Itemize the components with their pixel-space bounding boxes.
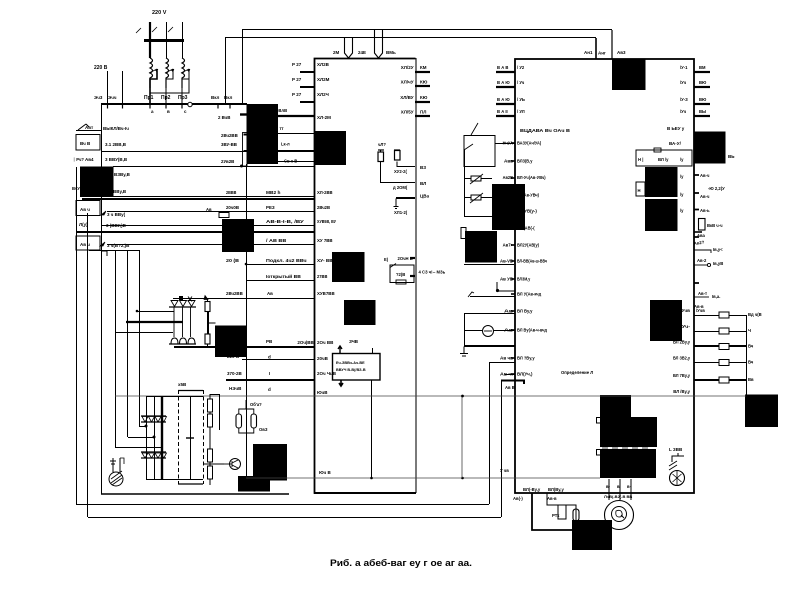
U1 right pin row 1 bbox=[415, 71, 430, 73]
svg-text:НЭчВ: НЭчВ bbox=[229, 386, 242, 391]
svg-text:КМ: КМ bbox=[420, 65, 427, 70]
svg-text:Об'а?: Об'а? bbox=[250, 402, 262, 407]
svg-text:ХЛ/ВУ: ХЛ/ВУ bbox=[400, 95, 413, 100]
svg-text:ХЛ2В: ХЛ2В bbox=[317, 62, 330, 67]
svg-text:2Вч2В: 2Вч2В bbox=[317, 205, 331, 210]
svg-text:/ АВ ВВ: / АВ ВВ bbox=[266, 238, 287, 243]
U1 pin 220V thick wire from A1 block bbox=[278, 115, 314, 117]
svg-text:-ВлВ: -ВлВ bbox=[277, 108, 287, 113]
svg-text:ВЮ: ВЮ bbox=[699, 97, 707, 102]
indicator lamp HL1 bbox=[483, 326, 494, 337]
svg-text:чЛ?: чЛ? bbox=[378, 142, 386, 147]
U1 pin wire row 150 bbox=[278, 150, 314, 152]
U1 right pin row 3 bbox=[415, 101, 430, 103]
U2 left pin row 4 bbox=[496, 115, 515, 117]
label block B16 bottom bbox=[253, 444, 287, 481]
U2 right pin row 1 bbox=[694, 71, 710, 73]
svg-text:2ОчН В: 2ОчН В bbox=[398, 256, 413, 261]
svg-text:Ав ч: Ав ч bbox=[80, 242, 90, 247]
wire left input a bbox=[107, 71, 109, 104]
svg-text:РВ: РВ bbox=[266, 339, 273, 344]
variable resistor R row 2 bbox=[471, 195, 481, 200]
capacitor capsule near B17 bbox=[573, 509, 579, 521]
wire left input b bbox=[122, 71, 124, 104]
power module MC main bbox=[600, 417, 657, 447]
label block B13 audio right bbox=[745, 395, 778, 428]
wire mains phase c bbox=[182, 22, 184, 58]
wire drop from pin 358 bbox=[489, 362, 491, 504]
U2 left pin row 1 bbox=[496, 71, 515, 73]
resistor below T2 bbox=[205, 334, 210, 344]
wire bottom corner path thick bbox=[532, 493, 576, 530]
svg-text:ЛчВ(-В2(-В ВВ: ЛчВ(-В2(-В ВВ bbox=[604, 494, 632, 499]
white box H row 182 bbox=[636, 182, 645, 196]
svg-text:Анг: Анг bbox=[598, 51, 606, 56]
transformer T1 winding a bbox=[150, 58, 153, 88]
svg-text:Вч В: Вч В bbox=[80, 141, 91, 146]
svg-text:2Оч ЧцВ: 2Оч ЧцВ bbox=[317, 371, 337, 376]
sync box top right tick bbox=[372, 348, 374, 354]
bus junction ticks bbox=[108, 105, 183, 109]
svg-text:Ав-ч: Ав-ч bbox=[700, 194, 710, 199]
svg-text:ВЛ-Уч(Ав-УВч): ВЛ-Уч(Ав-УВч) bbox=[517, 175, 546, 180]
wire top A horizontal bbox=[242, 29, 612, 31]
svg-text:В А Ю: В А Ю bbox=[497, 80, 510, 85]
U1 top pin funnel 1 bbox=[345, 38, 353, 59]
svg-text:ВЛ(Ву,у: ВЛ(Ву,у bbox=[548, 487, 564, 492]
U1 left wire row y264 bbox=[246, 264, 314, 266]
wire long thin row 395 bbox=[115, 395, 746, 397]
svg-text:Вв: Вв bbox=[748, 377, 754, 382]
svg-text:3 ч ВВу(: 3 ч ВВу( bbox=[107, 212, 126, 217]
svg-text:ХЛ1-2(: ХЛ1-2( bbox=[394, 210, 408, 215]
svg-text:ВЛ /у: ВЛ /у bbox=[658, 157, 669, 162]
svg-text:3ВУ-ВВ: 3ВУ-ВВ bbox=[221, 142, 237, 147]
svg-text:ВЛ Ву,у: ВЛ Ву,у bbox=[517, 309, 533, 314]
half box row 7 bbox=[102, 251, 107, 256]
U1 pin wire row 161 bbox=[278, 161, 314, 163]
svg-text:ХЛ-2ВВ: ХЛ-2ВВ bbox=[317, 190, 333, 195]
svg-text:РЕЗ: РЕЗ bbox=[266, 205, 275, 210]
svg-text:ХЛ/2У: ХЛ/2У bbox=[401, 65, 414, 70]
U2 right pin row 2 bbox=[694, 86, 710, 88]
label block B11 mid bbox=[344, 300, 376, 325]
svg-text:Ав-2: Ав-2 bbox=[697, 258, 707, 263]
wire T2 row 332 bbox=[115, 332, 173, 334]
wire lamp row 346 thick bbox=[464, 345, 515, 347]
U1 pin row 359 wire bbox=[242, 359, 314, 361]
audio row y380 bbox=[694, 379, 719, 381]
U2 left pin row 3 bbox=[496, 103, 515, 105]
coil cups bottom row bbox=[171, 338, 195, 344]
wire T2 row 322 thick bbox=[126, 321, 183, 323]
svg-text:ВЛ /Ву,у: ВЛ /Ву,у bbox=[673, 389, 690, 394]
svg-text:ВВУЧ В-В(/ВЗ-В: ВВУЧ В-В(/ВЗ-В bbox=[336, 368, 366, 372]
enclosure bottom edge bbox=[101, 493, 289, 495]
transformer T1 winding c bbox=[182, 58, 185, 88]
power module MC left notch 1 bbox=[597, 418, 601, 424]
stub Iv row 296 bbox=[694, 296, 709, 298]
svg-text:ВЫКЛ/Вч-Iч: ВЫКЛ/Вч-Iч bbox=[103, 126, 129, 131]
label block antenna top right bbox=[612, 59, 646, 91]
wire thick row 347 left segment bbox=[174, 346, 314, 348]
svg-text:2М: 2М bbox=[333, 50, 340, 55]
svg-text:3 ВВУ(В,В: 3 ВВУ(В,В bbox=[105, 157, 128, 162]
wire transistor connects bbox=[224, 463, 232, 465]
svg-text:в: в bbox=[167, 109, 170, 114]
wire switch group vertical bbox=[464, 166, 466, 216]
svg-text:4 СЗ ч!-- МЗь: 4 СЗ ч!-- МЗь bbox=[419, 270, 446, 275]
svg-text:ВкВ ч-ч: ВкВ ч-ч bbox=[707, 223, 723, 228]
power module MC left notch 2 bbox=[597, 450, 601, 456]
wire drop x462 bbox=[461, 396, 463, 478]
svg-text:ХЛ/5У: ХЛ/5У bbox=[401, 110, 414, 115]
resistor R inside U1 top 1 bbox=[378, 152, 384, 162]
sync box top arrow bbox=[338, 346, 342, 354]
wire winding a to fuse bbox=[150, 71, 157, 104]
U1 internal relay box bbox=[390, 265, 414, 283]
wire top B right drop bbox=[595, 38, 597, 59]
svg-text:ВЗ: ВЗ bbox=[420, 165, 426, 170]
svg-text:2Оч ВВ: 2Оч ВВ bbox=[317, 340, 334, 345]
module U1 outline bbox=[315, 59, 416, 494]
svg-text:Ав-ч: Ав-ч bbox=[700, 173, 710, 178]
connector strip left of A1 bbox=[243, 133, 248, 167]
label block B12 audio bbox=[650, 300, 682, 341]
svg-text:/Уч: /Уч bbox=[680, 80, 687, 85]
svg-text:Подкл. 4ч2 ВВч: Подкл. 4ч2 ВВч bbox=[266, 258, 307, 263]
svg-text:2ВВВ: 2ВВВ bbox=[226, 190, 237, 195]
svg-text:ВЛ: ВЛ bbox=[420, 181, 426, 186]
wire T2 top row bbox=[173, 298, 314, 300]
U1 pin wire row 133 bbox=[278, 133, 314, 135]
power module MC lower bbox=[600, 449, 656, 478]
svg-text:Вд ч(В: Вд ч(В bbox=[748, 312, 762, 317]
svg-text:ХЛ/чУ: ХЛ/чУ bbox=[401, 80, 414, 85]
audio right vertical bbox=[746, 315, 748, 396]
svg-text:Lк-л: Lк-л bbox=[281, 142, 290, 147]
label block A2 on U1 left bbox=[314, 131, 346, 165]
module U2 outline bbox=[515, 59, 694, 493]
resistor stack right of T3 r3 bbox=[208, 449, 213, 462]
svg-text:3 (ВВУ,)В: 3 (ВВУ,)В bbox=[106, 223, 127, 228]
svg-text:ВЫ: ВЫ bbox=[699, 109, 706, 114]
svg-text:Ав: Ав bbox=[206, 207, 212, 212]
U1 left wire row y244 bbox=[107, 244, 314, 246]
wire under switch group bbox=[464, 264, 514, 266]
wire thick row 347 right segment bbox=[464, 345, 515, 347]
wire mains phase a bbox=[149, 22, 151, 58]
svg-text:Е): Е) bbox=[384, 257, 389, 262]
sync box U3 bbox=[333, 354, 381, 381]
tap arrows on windings bbox=[149, 69, 189, 73]
wire vertical x246 bbox=[246, 164, 248, 478]
svg-text:3 ч(В?2,)В: 3 ч(В?2,)В bbox=[107, 243, 130, 248]
svg-text:В А Ю: В А Ю bbox=[497, 97, 510, 102]
wire vertical x127 bbox=[127, 250, 129, 437]
wire feed T3 y447 bbox=[115, 447, 162, 449]
U1 right pin row 4 bbox=[415, 115, 430, 117]
svg-text:/ УЬ: / УЬ bbox=[517, 97, 525, 102]
wire mains phase b bbox=[166, 22, 168, 58]
switch ticks on mains bbox=[136, 27, 173, 33]
svg-text:Ан1: Ан1 bbox=[584, 50, 593, 55]
label block A6 below switch bbox=[465, 231, 497, 263]
label block left column KT bbox=[80, 167, 114, 198]
connector box row 4 bbox=[76, 201, 100, 216]
svg-text:Ч: Ч bbox=[748, 328, 751, 333]
svg-text:27ВВ: 27ВВ bbox=[317, 274, 328, 279]
U1 bottom thick edge bbox=[314, 492, 416, 494]
svg-text:3.1 2ВВ,В: 3.1 2ВВ,В bbox=[105, 142, 127, 147]
svg-text:Р 27: Р 27 bbox=[292, 77, 302, 82]
wire long thin row 478 bbox=[246, 477, 600, 479]
wire vertical x139 bbox=[139, 250, 141, 426]
wire bottom feedback y504 bbox=[76, 504, 489, 506]
svg-text:ВЛЗ(В,у: ВЛЗ(В,у bbox=[517, 159, 533, 164]
wire vertical x87 bbox=[87, 213, 89, 517]
svg-text:d: d bbox=[268, 355, 271, 360]
svg-text:Еч-ЗВВч-Ач-ВЕ: Еч-ЗВВч-Ач-ВЕ bbox=[336, 361, 365, 365]
svg-text:Св х В: Св х В bbox=[284, 159, 297, 164]
svg-text:Iв,а.: Iв,а. bbox=[712, 294, 720, 299]
svg-text:ХЛ-2М: ХЛ-2М bbox=[317, 115, 331, 120]
svg-text:Л(у): Л(у) bbox=[79, 222, 88, 227]
junction dot row 264 bbox=[245, 263, 248, 266]
svg-text:Ав-т: Ав-т bbox=[698, 291, 707, 296]
svg-text:Юч В: Юч В bbox=[319, 470, 332, 475]
svg-text:20ч0В: 20ч0В bbox=[226, 205, 240, 210]
svg-text:ЦВа: ЦВа bbox=[420, 194, 430, 199]
wire vertical x101 bbox=[101, 104, 103, 494]
svg-text:220 V: 220 V bbox=[152, 10, 167, 16]
wire secondary link bbox=[150, 71, 189, 93]
wire feed T3 y437 bbox=[128, 437, 154, 439]
svg-text:Н: Н bbox=[638, 188, 641, 193]
wire row 151 bbox=[101, 151, 314, 153]
U1 left wire row y280 bbox=[246, 280, 314, 282]
svg-text:ХЛ2Ч: ХЛ2Ч bbox=[317, 92, 329, 97]
svg-text:2Вч2ВВ: 2Вч2ВВ bbox=[221, 133, 238, 138]
svg-text:ВЛ У(Ав-кчд: ВЛ У(Ав-кчд bbox=[517, 292, 541, 297]
svg-text:тт: тт bbox=[280, 126, 284, 131]
svg-text:220 В: 220 В bbox=[94, 65, 108, 71]
svg-text:ВАЗУ(Ач/УА): ВАЗУ(Ач/УА) bbox=[517, 141, 542, 146]
audio row y331 bbox=[694, 331, 719, 333]
svg-text:Н |: Н | bbox=[638, 157, 643, 162]
svg-text:Ав-ь: Ав-ь bbox=[700, 208, 710, 213]
wire R1 bottom to edge bbox=[381, 162, 416, 183]
connector box row 2 bbox=[76, 135, 100, 151]
motor M1 bbox=[605, 501, 634, 530]
svg-text:ВЛ(Уч,): ВЛ(Уч,) bbox=[517, 372, 533, 377]
svg-text:Ав-в: Ав-в bbox=[547, 496, 557, 501]
svg-text:ВЛ 7Ву,у: ВЛ 7Ву,у bbox=[673, 373, 691, 378]
transformer T3 dashed box bbox=[178, 391, 203, 485]
small box left of path bbox=[558, 505, 566, 519]
svg-text:/Уч-: /Уч- bbox=[680, 324, 690, 329]
stub Iv row 248 bbox=[694, 250, 711, 253]
resistor above T2 bbox=[205, 302, 210, 312]
U1 right pin row 198 thick stub bbox=[396, 197, 415, 199]
wire lamp row 330 bbox=[464, 330, 482, 332]
U1 right pin row 272 label bbox=[410, 275, 415, 277]
wire lamp row 313 bbox=[464, 313, 515, 315]
svg-text:Риб. а абеб-ваг еу г ое аг аа.: Риб. а абеб-ваг еу г ое аг аа. bbox=[330, 558, 472, 568]
svg-text:Авт: Авт bbox=[85, 125, 94, 130]
small box above A3 bbox=[219, 213, 229, 218]
svg-text:ХУ2-2(: ХУ2-2( bbox=[394, 169, 407, 174]
svg-text:Ав3: Ав3 bbox=[617, 50, 626, 55]
svg-text:ВЮ: ВЮ bbox=[699, 80, 707, 85]
svg-text:/Учв: /Учв bbox=[696, 308, 705, 313]
wire switch to U2 bbox=[495, 143, 515, 145]
svg-text:х5В: х5В bbox=[178, 382, 187, 387]
svg-text:370-2В: 370-2В bbox=[227, 371, 243, 376]
svg-text:ВЛ ЗВ2,у: ВЛ ЗВ2,у bbox=[673, 356, 691, 361]
svg-text:д 2ОМ(: д 2ОМ( bbox=[393, 185, 408, 190]
transformer T1 winding b bbox=[166, 58, 169, 88]
svg-text:/Уч: /Уч bbox=[680, 109, 687, 114]
transformer T3 winding bottom bbox=[141, 451, 166, 453]
speaker circle bbox=[670, 471, 685, 486]
wire T3 top connect bbox=[146, 396, 203, 398]
audio row y346.5 bbox=[694, 345, 719, 347]
svg-text:Р 27: Р 27 bbox=[292, 92, 302, 97]
U1 right pin row 255 label bbox=[410, 257, 415, 259]
svg-text:ПЛ: ПЛ bbox=[420, 110, 426, 115]
wire top A left drop to bus bbox=[242, 30, 244, 104]
svg-text:I: I bbox=[269, 371, 270, 376]
svg-text:?2(В: ?2(В bbox=[396, 272, 405, 277]
U1 left wire row y196 bbox=[113, 196, 314, 198]
wire winding b to fuse bbox=[166, 71, 173, 104]
wire lamp group vertical bbox=[464, 313, 466, 346]
wire top B left drop to bus bbox=[225, 38, 227, 104]
svg-text:ВМь: ВМь bbox=[386, 50, 396, 55]
svg-text:ВЛ2У(АВ(у): ВЛ2У(АВ(у) bbox=[517, 243, 539, 248]
svg-text:ВЗВу,В: ВЗВу,В bbox=[114, 172, 131, 177]
svg-text:2Ув2В: 2Ув2В bbox=[221, 159, 234, 164]
label block B7 right of U2 bbox=[694, 132, 726, 164]
wire vertical x115 bbox=[115, 250, 117, 448]
diode mark on top row bbox=[179, 296, 183, 300]
svg-text:У чв: У чв bbox=[500, 468, 509, 473]
resistor stack right of T3 r4 bbox=[208, 466, 213, 479]
resistor stack right of T3 r2 bbox=[208, 414, 213, 427]
capacitor C1 capsule bbox=[236, 414, 242, 428]
wire R2 bottom to edge bbox=[397, 162, 415, 167]
wire vertical x76 bbox=[76, 167, 78, 504]
switch SA1 box bbox=[464, 136, 495, 167]
svg-text:/Учв: /Учв bbox=[680, 308, 690, 313]
svg-text:-Ю 2,2(У: -Ю 2,2(У bbox=[708, 186, 725, 191]
svg-text:Iоткрытый ВВ: Iоткрытый ВВ bbox=[266, 273, 302, 279]
svg-text:ВЛ-ВВ(Ав-ш-ВВч: ВЛ-ВВ(Ав-ш-ВВч bbox=[517, 259, 547, 264]
svg-text:КЮ: КЮ bbox=[420, 95, 428, 100]
svg-text:Пр3: Пр3 bbox=[178, 95, 188, 101]
transformer T3 winding top bbox=[141, 415, 166, 417]
svg-text:Вкл: Вкл bbox=[211, 95, 220, 100]
svg-text:ВЛ ?Ву,у: ВЛ ?Ву,у bbox=[517, 356, 535, 361]
wire T2 row 311 bbox=[136, 311, 174, 313]
svg-text:В ЬЕУ у: В ЬЕУ у bbox=[667, 126, 685, 131]
svg-text:ХЛ2М: ХЛ2М bbox=[317, 77, 330, 82]
svg-text:/У-З: /У-З bbox=[680, 97, 688, 102]
wire T3 bottom connect bbox=[146, 479, 203, 481]
U1 left wire row y211 bbox=[107, 211, 314, 213]
svg-text:АВ-В-I-В, /ВУ: АВ-В-I-В, /ВУ bbox=[266, 219, 304, 224]
label block B8 right area bbox=[645, 167, 678, 197]
power module MC dashed split bbox=[600, 447, 656, 449]
ground symbol under lamp group bbox=[460, 347, 468, 357]
wire top B horizontal bbox=[225, 37, 596, 39]
svg-text:ВЛ 2Ву,у: ВЛ 2Ву,у bbox=[673, 340, 691, 345]
svg-text:ХУВ7ВВ: ХУВ7ВВ bbox=[317, 291, 335, 296]
power module MC upper bbox=[600, 395, 631, 417]
svg-text:L ЗВВ: L ЗВВ bbox=[669, 447, 683, 452]
wire top A right drop to U2 pin bbox=[611, 30, 613, 59]
svg-text:Ав: Ав bbox=[267, 291, 273, 296]
resistor left of A6 block bbox=[461, 228, 466, 239]
svg-text:Ав ч: Ав ч bbox=[80, 207, 90, 212]
svg-text:Определение Л: Определение Л bbox=[561, 370, 593, 375]
svg-text:/ Уч: / Уч bbox=[517, 80, 525, 85]
resistor right column R bbox=[699, 219, 706, 231]
wire bottom feedback y517 bbox=[88, 517, 501, 519]
wire winding c to fuse bbox=[182, 71, 189, 104]
U1 top pin funnel 2 bbox=[375, 30, 383, 59]
svg-text:Вч: Вч bbox=[748, 360, 754, 365]
main bus bbox=[101, 103, 247, 105]
svg-text:РТх: РТх bbox=[552, 513, 560, 518]
svg-text:/У-1: /У-1 bbox=[680, 65, 688, 70]
svg-text:ХУВ5В, ВУ: ХУВ5В, ВУ bbox=[317, 219, 336, 224]
svg-text:КЮ: КЮ bbox=[420, 80, 428, 85]
svg-text:20чВ: 20чВ bbox=[317, 356, 329, 361]
label block A3 left bbox=[222, 219, 254, 252]
label block B15 bottom bbox=[238, 476, 270, 492]
bus ticks right bbox=[218, 105, 230, 109]
transformer T2 core lines bbox=[174, 307, 191, 337]
svg-text:Ав4: Ав4 bbox=[85, 157, 94, 162]
wire feed T3 y426 bbox=[139, 426, 146, 428]
sync box bottom pin thick bbox=[339, 380, 343, 386]
U1 left wire row y166.5 bbox=[113, 166, 314, 168]
wire bottom second path bbox=[547, 493, 576, 520]
svg-text:Ав В: Ав В bbox=[505, 385, 515, 390]
wire corner pin 374 thick bbox=[501, 381, 524, 385]
junction dots row 478 bbox=[370, 477, 373, 480]
wire resistor stack bbox=[209, 394, 211, 485]
wire corner into row 291 bbox=[497, 282, 515, 291]
label block A1 power bbox=[247, 104, 279, 164]
svg-text:2Оч|ВВ: 2Оч|ВВ bbox=[297, 340, 314, 345]
svg-text:ВА-У/: ВА-У/ bbox=[669, 141, 682, 146]
switch SB1 row bbox=[78, 124, 89, 130]
U2 right edge pin stubs bbox=[694, 142, 699, 283]
svg-text:ВЦДАВА Вч ОАч В: ВЦДАВА Вч ОАч В bbox=[520, 128, 571, 133]
U1 left wire row y225 bbox=[101, 225, 314, 227]
transformer T3 core verticals bbox=[146, 396, 148, 479]
svg-text:Пр2: Пр2 bbox=[161, 95, 171, 101]
U2 left pin row 2 bbox=[496, 86, 515, 88]
capacitor C2 capsule bbox=[251, 414, 257, 428]
svg-text:2 ВчВ: 2 ВчВ bbox=[218, 115, 230, 120]
audio row y362.5 bbox=[694, 362, 719, 364]
resistor R inside U1 top 2 bbox=[395, 151, 401, 161]
svg-text:Эчч: Эчч bbox=[108, 95, 117, 100]
